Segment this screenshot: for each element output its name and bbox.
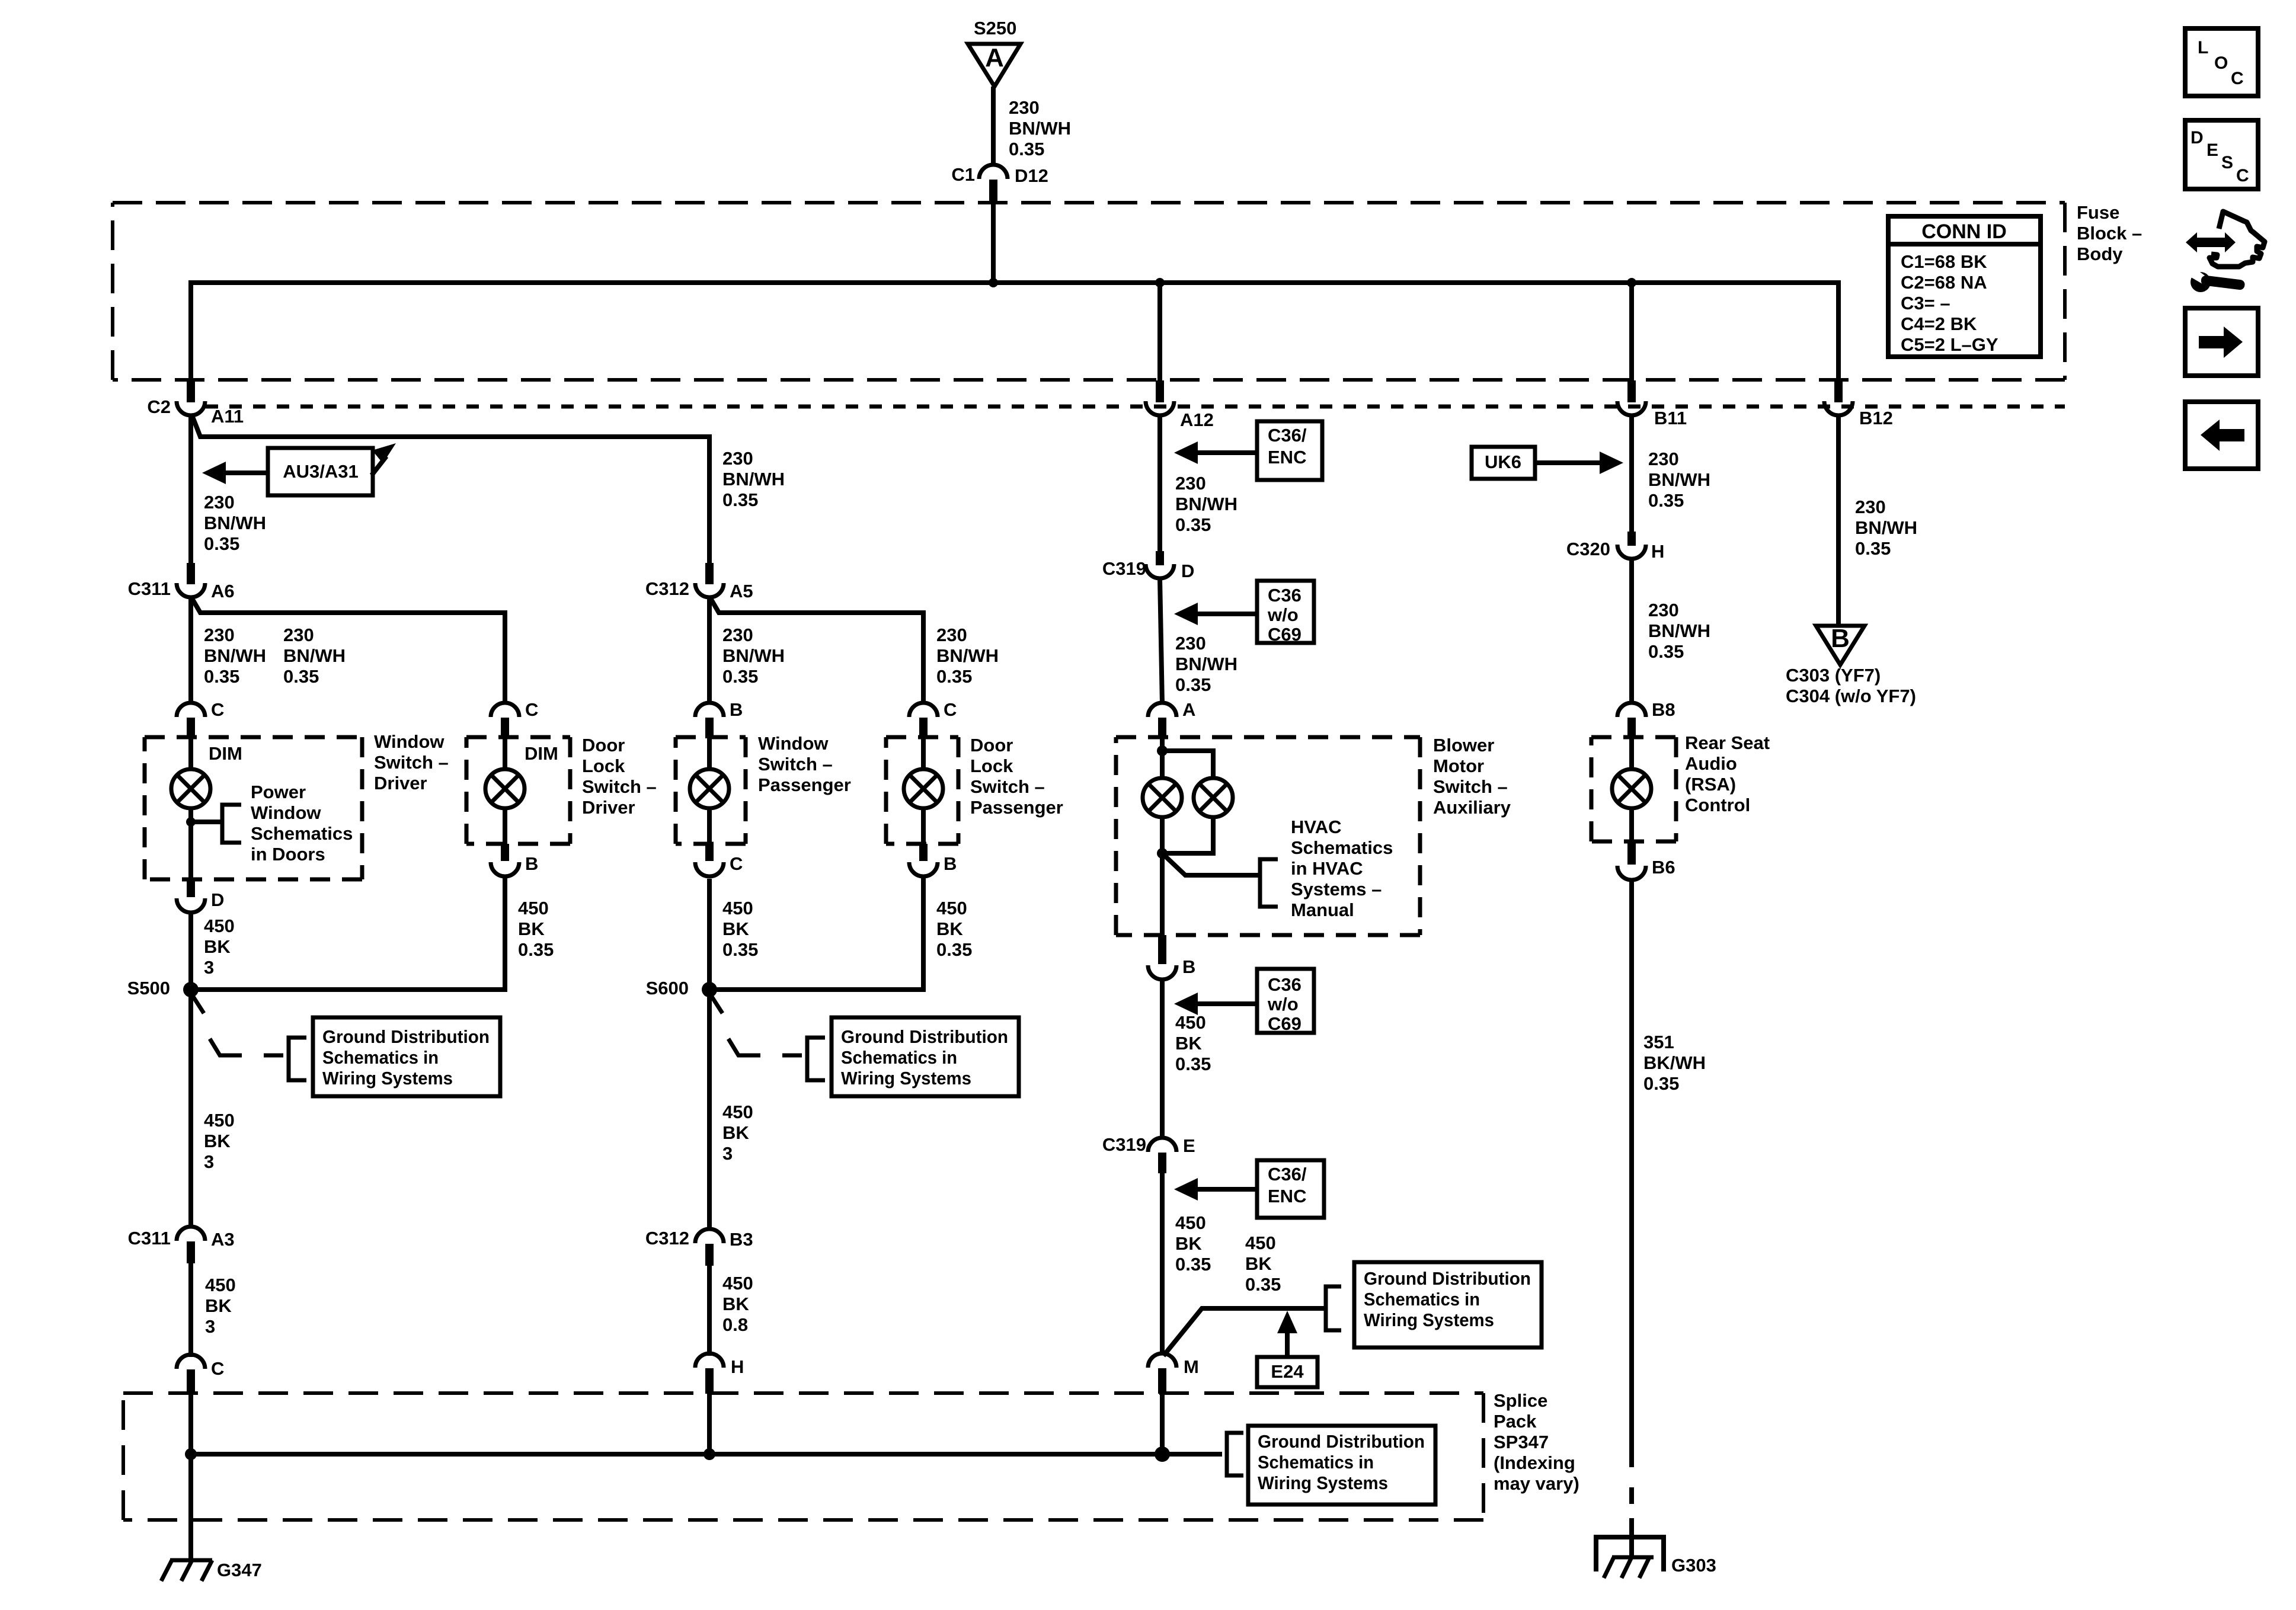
label Door Lock Switch - Passenger <box>970 735 1063 818</box>
S500 ground reference switch symbol <box>210 1038 306 1080</box>
svg-text:0.35: 0.35 <box>936 666 972 687</box>
svg-text:Wiring Systems: Wiring Systems <box>322 1068 453 1089</box>
svg-text:450: 450 <box>1245 1233 1276 1253</box>
label 230 BN/WH 0.35 (S250 feed) <box>1009 97 1071 159</box>
svg-text:Wiring Systems: Wiring Systems <box>1258 1473 1388 1493</box>
svg-text:B: B <box>525 853 538 874</box>
connector C splice pack <box>177 1355 224 1394</box>
wire B11 down to C320 <box>1629 414 1634 532</box>
junction dot bus/B11 <box>1627 278 1636 287</box>
wire D to S500 <box>188 913 193 990</box>
window switch passenger dashed box <box>676 737 746 844</box>
junction dot bus/A12 <box>1155 278 1165 287</box>
svg-text:E: E <box>1183 1135 1195 1156</box>
svg-text:0.35: 0.35 <box>1009 139 1044 159</box>
junction dot lamp A <box>186 808 196 879</box>
svg-text:Manual: Manual <box>1291 900 1354 920</box>
connector C window switch driver <box>177 699 224 738</box>
svg-text:450: 450 <box>518 898 549 918</box>
svg-text:0.35: 0.35 <box>1175 1054 1211 1074</box>
connector C2 pin A11 <box>147 380 244 427</box>
svg-text:S600: S600 <box>646 978 689 998</box>
wire S500 down to C311 A3 <box>188 990 193 1227</box>
reference box C36/ENC lower with arrow <box>1174 1160 1324 1218</box>
wire A3 to splice pack <box>188 1263 193 1357</box>
svg-text:BK: BK <box>1175 1233 1202 1254</box>
svg-text:E: E <box>2207 140 2218 160</box>
label 450 BK 0.35 (branch E24) <box>1245 1233 1281 1295</box>
connector M splice pack <box>1148 1353 1199 1394</box>
label 230 BN/WH 0.35 (B12) <box>1855 497 1917 559</box>
wire M into splice bus <box>1160 1394 1165 1454</box>
svg-text:0.35: 0.35 <box>722 939 758 960</box>
label 450 BK 0.35 (col B) <box>518 898 554 960</box>
svg-text:BK: BK <box>205 1295 232 1316</box>
wire bus down to B12 <box>1836 280 1841 382</box>
reference box E24 with arrow <box>1257 1311 1318 1387</box>
svg-text:230: 230 <box>1648 600 1679 620</box>
fuse block - body dashed box <box>113 203 2065 380</box>
svg-text:Lock: Lock <box>582 756 625 776</box>
svg-text:(Indexing: (Indexing <box>1494 1452 1575 1473</box>
svg-text:D: D <box>1181 561 1194 581</box>
svg-text:Audio: Audio <box>1685 753 1737 774</box>
svg-text:HVAC: HVAC <box>1291 817 1342 837</box>
svg-text:C: C <box>211 1358 224 1379</box>
connector D window switch driver <box>177 879 224 913</box>
lamp door lock passenger <box>904 738 943 844</box>
svg-text:C: C <box>2236 166 2249 185</box>
svg-text:C2=68 NA: C2=68 NA <box>1901 272 1987 293</box>
svg-text:B: B <box>944 853 957 874</box>
label 230 BN/WH 0.35 (col C lower) <box>722 625 785 687</box>
label 230 BN/WH 0.35 (col A lower) <box>204 625 266 687</box>
svg-text:Schematics in: Schematics in <box>322 1047 439 1068</box>
svg-text:Passenger: Passenger <box>758 774 851 795</box>
svg-text:A11: A11 <box>211 406 244 427</box>
CONN ID table <box>1888 216 2041 357</box>
svg-text:230: 230 <box>722 448 753 469</box>
svg-text:AU3/A31: AU3/A31 <box>283 461 359 482</box>
svg-text:Fuse: Fuse <box>2077 202 2119 223</box>
svg-text:A: A <box>1182 699 1195 720</box>
svg-text:230: 230 <box>283 625 314 645</box>
svg-text:0.35: 0.35 <box>204 533 239 554</box>
svg-text:Door: Door <box>970 735 1013 756</box>
svg-text:BK: BK <box>204 1131 231 1151</box>
junction dot splice col A <box>185 1448 197 1460</box>
label 230 BN/WH 0.35 (branch col C) <box>722 448 785 510</box>
svg-text:230: 230 <box>936 625 967 645</box>
svg-text:BN/WH: BN/WH <box>1648 620 1710 641</box>
svg-text:G303: G303 <box>1671 1555 1716 1576</box>
svg-text:Splice: Splice <box>1494 1390 1547 1411</box>
wire A5 down to window switch passenger <box>707 597 712 704</box>
svg-text:ENC: ENC <box>1268 447 1306 468</box>
svg-text:G347: G347 <box>217 1560 262 1580</box>
svg-text:C5=2 L–GY: C5=2 L–GY <box>1901 334 1998 355</box>
svg-text:Auxiliary: Auxiliary <box>1433 797 1511 818</box>
svg-text:B: B <box>730 699 743 720</box>
svg-text:Body: Body <box>2077 244 2123 264</box>
svg-text:450: 450 <box>204 916 235 936</box>
connector C311 pin A6 <box>128 563 235 601</box>
svg-text:may vary): may vary) <box>1494 1473 1579 1494</box>
wire B door lock driver to S500 <box>191 876 505 990</box>
ground G347 <box>161 1560 262 1581</box>
svg-text:3: 3 <box>204 1151 214 1172</box>
svg-text:Wiring Systems: Wiring Systems <box>841 1068 971 1089</box>
wire C319 D down to blower <box>1160 578 1162 704</box>
reference box C36 w/o C69 lower with arrow <box>1174 969 1314 1034</box>
splice S600 <box>646 978 722 1013</box>
connector C window switch passenger <box>695 844 743 876</box>
svg-text:H: H <box>731 1356 744 1377</box>
svg-text:C: C <box>2231 69 2244 88</box>
label 450 BK 0.35 (col D) <box>936 898 972 960</box>
svg-text:Driver: Driver <box>582 797 635 818</box>
svg-text:A3: A3 <box>211 1229 235 1250</box>
label 230 BN/WH 0.35 (C320 H) <box>1648 600 1710 662</box>
svg-text:0.35: 0.35 <box>722 666 758 687</box>
ground G303 <box>1596 1537 1716 1578</box>
label 450 BK 0.8 (below B3) <box>722 1273 753 1335</box>
lamp window switch driver <box>171 738 210 808</box>
label 230 BN/WH 0.35 (A12) <box>1175 473 1237 535</box>
wire to G303 <box>1629 1518 1634 1557</box>
svg-text:B12: B12 <box>1859 408 1893 428</box>
wire S600 down to C312 B3 <box>707 990 712 1229</box>
svg-text:Wiring Systems: Wiring Systems <box>1364 1310 1494 1330</box>
svg-text:B3: B3 <box>730 1229 753 1250</box>
svg-text:Ground Distribution: Ground Distribution <box>322 1026 490 1047</box>
connector B door lock passenger <box>909 844 957 876</box>
power window schematics bracket <box>191 805 241 843</box>
connector B8 RSA <box>1617 699 1675 738</box>
ground distribution box 3 <box>1354 1262 1542 1347</box>
wire B door lock passenger to S600 <box>709 876 923 990</box>
svg-text:Switch –: Switch – <box>582 776 657 797</box>
svg-text:B8: B8 <box>1652 699 1675 720</box>
svg-text:Driver: Driver <box>374 773 427 793</box>
connector H splice pack <box>695 1353 744 1394</box>
svg-text:DIM: DIM <box>525 743 558 764</box>
wire branch A5 to door lock passenger <box>711 598 923 704</box>
svg-text:C1: C1 <box>951 164 975 185</box>
RSA dashed box <box>1591 737 1676 841</box>
label 230 BN/WH 0.35 (C319 D) <box>1175 633 1237 695</box>
label 450 BK 3 (below S500) <box>204 1110 235 1172</box>
svg-text:C304 (w/o YF7): C304 (w/o YF7) <box>1786 686 1916 706</box>
ground distribution box 4 <box>1248 1426 1435 1505</box>
svg-text:BN/WH: BN/WH <box>936 645 999 666</box>
svg-text:Window: Window <box>758 733 829 754</box>
svg-text:BN/WH: BN/WH <box>722 645 785 666</box>
wire dash segment <box>1629 1487 1634 1504</box>
svg-text:0.35: 0.35 <box>283 666 319 687</box>
svg-text:C311: C311 <box>128 1228 171 1249</box>
svg-text:0.8: 0.8 <box>722 1314 748 1335</box>
svg-text:0.35: 0.35 <box>1245 1274 1281 1295</box>
svg-text:D12: D12 <box>1015 165 1048 186</box>
svg-text:230: 230 <box>1855 497 1886 517</box>
branch wire to ground distribution <box>1163 1308 1326 1356</box>
wire C2 down <box>188 414 193 563</box>
svg-text:Ground Distribution: Ground Distribution <box>1364 1268 1531 1289</box>
svg-text:S: S <box>2221 153 2233 172</box>
svg-text:C311: C311 <box>128 578 171 599</box>
svg-text:C36: C36 <box>1268 585 1302 606</box>
wire C1 to bus <box>991 202 996 283</box>
ground distribution box 1 <box>313 1017 500 1096</box>
label 230 BN/WH 0.35 (B11) <box>1648 449 1710 511</box>
svg-text:C: C <box>944 699 957 720</box>
svg-text:230: 230 <box>204 625 235 645</box>
reference box UK6 with arrow <box>1472 447 1623 479</box>
connector C2 pin B11 <box>1617 380 1687 428</box>
svg-text:C319: C319 <box>1102 558 1146 579</box>
svg-text:BN/WH: BN/WH <box>1648 469 1710 490</box>
svg-text:450: 450 <box>205 1275 236 1295</box>
wire blower B to C319 E <box>1160 980 1165 1139</box>
svg-text:Rear Seat: Rear Seat <box>1685 732 1770 753</box>
svg-text:Window: Window <box>251 802 321 823</box>
label DIM (window switch driver) <box>209 743 242 764</box>
svg-text:0.35: 0.35 <box>936 939 972 960</box>
ground distribution bracket 3 <box>1326 1286 1341 1330</box>
svg-text:BN/WH: BN/WH <box>204 645 266 666</box>
svg-text:C69: C69 <box>1268 624 1302 645</box>
junction dot splice col E <box>1155 1446 1170 1462</box>
connector C door lock passenger <box>909 699 957 738</box>
svg-text:3: 3 <box>204 957 214 978</box>
svg-text:A5: A5 <box>730 581 753 601</box>
reference box C36 w/o C69 upper with arrow <box>1174 581 1314 645</box>
connector C320 pin H <box>1566 532 1665 562</box>
svg-text:BK: BK <box>722 1122 749 1143</box>
connector B6 RSA <box>1617 841 1675 880</box>
connector C2 pin A12 <box>1146 380 1214 430</box>
svg-text:UK6: UK6 <box>1485 452 1521 472</box>
svg-text:450: 450 <box>722 898 753 918</box>
label 230 BN/WH 0.35 (col D) <box>936 625 999 687</box>
connector C2 pin B12 <box>1824 380 1893 428</box>
svg-text:Passenger: Passenger <box>970 797 1063 818</box>
svg-text:0.35: 0.35 <box>518 939 554 960</box>
svg-text:L: L <box>2198 38 2208 57</box>
fuse block connector row dotted line <box>206 405 2065 409</box>
svg-text:C2: C2 <box>147 396 171 417</box>
wire bus down to A12 <box>1157 283 1162 382</box>
connector C319 pin D <box>1102 551 1195 581</box>
connector A blower switch <box>1148 699 1195 738</box>
svg-text:Schematics in: Schematics in <box>841 1047 957 1068</box>
label DIM (door lock driver) <box>525 743 558 764</box>
svg-text:3: 3 <box>722 1143 733 1164</box>
svg-text:A: A <box>985 43 1004 72</box>
svg-text:C36/: C36/ <box>1268 425 1307 446</box>
svg-text:BK: BK <box>518 918 545 939</box>
wire A6 down to window switch driver <box>188 597 193 704</box>
label 450 BK 3 (col A) <box>204 916 235 978</box>
svg-text:Blower: Blower <box>1433 735 1494 756</box>
splice pack bus <box>191 1452 1222 1457</box>
splice pack SP347 dashed box <box>123 1393 1483 1520</box>
svg-text:Switch –: Switch – <box>374 752 449 773</box>
svg-text:B: B <box>1182 956 1195 977</box>
svg-text:C320: C320 <box>1566 539 1610 559</box>
svg-text:Lock: Lock <box>970 756 1013 776</box>
label 450 BK 0.35 (blower B) <box>1175 1012 1211 1074</box>
svg-text:Schematics: Schematics <box>1291 837 1393 858</box>
label 230 BN/WH 0.35 (branch col B) <box>283 625 346 687</box>
power splice S250 source triangle A <box>968 18 1021 87</box>
wire B3 to splice pack <box>707 1266 712 1356</box>
icon vehicle with arrows and wrench <box>2186 212 2265 292</box>
wire S250 to C1 <box>991 87 996 166</box>
svg-text:(RSA): (RSA) <box>1685 774 1736 795</box>
icon box arrow right <box>2185 308 2258 376</box>
svg-text:0.35: 0.35 <box>1175 1254 1211 1275</box>
S600 ground reference switch symbol <box>728 1038 825 1080</box>
svg-text:Ground Distribution: Ground Distribution <box>1258 1431 1425 1452</box>
svg-text:3: 3 <box>205 1316 215 1337</box>
svg-text:Motor: Motor <box>1433 756 1484 776</box>
svg-text:230: 230 <box>722 625 753 645</box>
destination triangle B <box>1816 624 1865 665</box>
connector B door lock driver <box>491 844 538 876</box>
wire B6 down (solid) <box>1629 880 1634 1467</box>
svg-text:C303 (YF7): C303 (YF7) <box>1786 665 1881 686</box>
svg-text:BK: BK <box>722 1294 749 1314</box>
label Blower Motor Switch - Auxiliary <box>1433 735 1511 818</box>
svg-text:C69: C69 <box>1268 1013 1302 1034</box>
svg-text:Control: Control <box>1685 795 1750 815</box>
svg-text:Switch –: Switch – <box>970 776 1045 797</box>
svg-text:230: 230 <box>1175 473 1206 494</box>
label HVAC Schematics in HVAC Systems - Manual <box>1291 817 1393 920</box>
connector B window switch passenger <box>695 699 743 738</box>
svg-text:C4=2 BK: C4=2 BK <box>1901 313 1977 334</box>
svg-text:0.35: 0.35 <box>1855 538 1891 559</box>
svg-text:BK: BK <box>722 918 749 939</box>
svg-text:BK: BK <box>204 936 231 957</box>
svg-text:BN/WH: BN/WH <box>1175 654 1237 674</box>
svg-text:351: 351 <box>1643 1032 1674 1052</box>
svg-text:Switch –: Switch – <box>758 754 833 774</box>
lamp RSA <box>1612 738 1651 841</box>
connector C312 pin B3 <box>645 1228 753 1266</box>
svg-text:450: 450 <box>1175 1012 1206 1033</box>
wire C into splice bus <box>188 1394 193 1454</box>
wire branch A11 to window switch passenger <box>192 415 709 563</box>
svg-text:C: C <box>730 853 743 874</box>
svg-text:450: 450 <box>204 1110 235 1131</box>
svg-text:Systems –: Systems – <box>1291 879 1382 900</box>
wire C320 H down to RSA <box>1629 559 1634 704</box>
svg-text:w/o: w/o <box>1267 604 1299 625</box>
svg-text:450: 450 <box>1175 1212 1206 1233</box>
label 351 BK/WH 0.35 <box>1643 1032 1706 1094</box>
svg-text:BN/WH: BN/WH <box>1009 118 1071 139</box>
svg-text:BN/WH: BN/WH <box>1175 494 1237 514</box>
svg-text:Ground Distribution: Ground Distribution <box>841 1026 1008 1047</box>
svg-text:B6: B6 <box>1652 857 1675 878</box>
connector C door lock driver <box>491 699 538 738</box>
label Rear Seat Audio RSA Control <box>1685 732 1770 815</box>
svg-text:DIM: DIM <box>209 743 242 764</box>
wire splice to G347 <box>188 1454 193 1560</box>
wire C to S600 <box>707 879 712 990</box>
reference box AU3/A31 with arrows <box>202 443 396 495</box>
svg-text:0.35: 0.35 <box>204 666 239 687</box>
svg-text:0.35: 0.35 <box>1175 514 1211 535</box>
label Power Window Schematics in Doors <box>251 782 353 865</box>
svg-text:S500: S500 <box>127 978 170 998</box>
svg-text:BN/WH: BN/WH <box>1855 517 1917 538</box>
svg-text:BK: BK <box>1245 1253 1272 1274</box>
svg-text:D: D <box>2191 128 2204 148</box>
svg-text:C36/: C36/ <box>1268 1164 1307 1185</box>
svg-text:0.35: 0.35 <box>1648 641 1684 662</box>
svg-text:Door: Door <box>582 735 625 756</box>
svg-text:B: B <box>1831 624 1850 653</box>
svg-text:0.35: 0.35 <box>1643 1073 1679 1094</box>
svg-text:Power: Power <box>251 782 306 802</box>
svg-text:C312: C312 <box>645 578 689 599</box>
bus wire in fuse block <box>191 280 1838 285</box>
svg-text:0.35: 0.35 <box>722 489 758 510</box>
svg-text:w/o: w/o <box>1267 994 1299 1014</box>
svg-text:C312: C312 <box>645 1228 689 1249</box>
wire H into splice bus <box>707 1394 712 1454</box>
label 450 BK 3 (below A3) <box>205 1275 236 1337</box>
lamp window switch passenger <box>690 738 729 844</box>
label Door Lock Switch - Driver <box>582 735 657 818</box>
svg-text:Schematics in: Schematics in <box>1258 1452 1374 1473</box>
svg-text:C319: C319 <box>1102 1134 1146 1155</box>
svg-text:450: 450 <box>936 898 967 918</box>
label 230 BN/WH 0.35 (A11 col A) <box>204 492 266 554</box>
icon box arrow left <box>2185 402 2258 469</box>
svg-text:Switch –: Switch – <box>1433 776 1508 797</box>
svg-text:in Doors: in Doors <box>251 844 325 865</box>
svg-text:B11: B11 <box>1654 408 1687 428</box>
label C303/C304 <box>1786 665 1916 706</box>
svg-text:BK: BK <box>936 918 963 939</box>
wire bus down to B11 <box>1629 283 1634 382</box>
label 450 BK 0.35 (below E) <box>1175 1212 1211 1275</box>
label Splice Pack SP347 <box>1494 1390 1579 1494</box>
label 450 BK 3 (below S600) <box>722 1102 753 1164</box>
wire B12 down to triangle B <box>1836 414 1841 627</box>
svg-text:450: 450 <box>722 1102 753 1122</box>
svg-text:C: C <box>211 699 224 720</box>
svg-text:Block –: Block – <box>2077 223 2142 244</box>
wire bus down to C2 <box>188 280 193 382</box>
svg-text:230: 230 <box>1648 449 1679 469</box>
lamp door lock driver <box>485 738 525 844</box>
svg-text:CONN ID: CONN ID <box>1921 220 2007 243</box>
svg-text:C1=68 BK: C1=68 BK <box>1901 251 1987 272</box>
wire E down to M <box>1160 1173 1165 1355</box>
window switch driver dashed box <box>145 737 362 879</box>
svg-text:E24: E24 <box>1271 1361 1304 1382</box>
svg-text:BN/WH: BN/WH <box>283 645 346 666</box>
svg-text:C: C <box>525 699 538 720</box>
connector B blower switch <box>1148 935 1195 980</box>
junction dot C1/bus <box>989 278 998 287</box>
